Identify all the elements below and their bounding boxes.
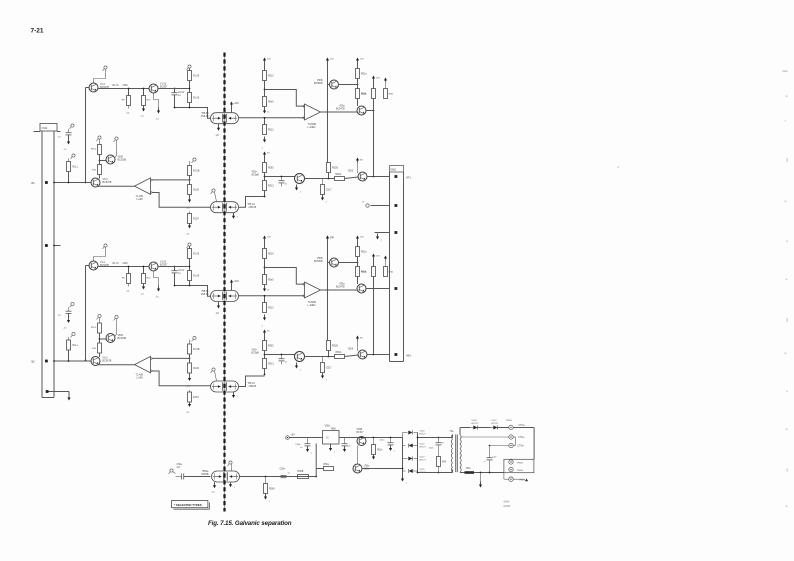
- wire node to V530: [265, 176, 295, 178]
- transistor V211: [106, 155, 115, 164]
- bridge left rail: [402, 438, 404, 476]
- fuse F1501: [465, 471, 475, 474]
- svg-text:VL25: VL25: [420, 469, 426, 471]
- transistor V50B: [357, 437, 366, 446]
- svg-text:BC560B: BC560B: [314, 83, 323, 85]
- svg-text:VL23: VL23: [420, 444, 426, 446]
- svg-text:15V: 15V: [360, 59, 364, 61]
- svg-text:15V: 15V: [330, 59, 334, 61]
- transformer B5 right arrow: [230, 482, 232, 485]
- test point TP1a: [104, 66, 107, 69]
- transistor V621: [357, 284, 366, 293]
- supply rail arrow ch5: [327, 60, 329, 64]
- svg-text:2200: 2200: [123, 85, 129, 87]
- svg-text:IC: IC: [327, 437, 330, 439]
- supply arrow V631: [357, 338, 359, 341]
- wire R to Q node ch4: [99, 333, 101, 343]
- test point TP600: [509, 425, 513, 429]
- right bus node y288: [367, 288, 390, 290]
- transistor V50C: [353, 464, 362, 473]
- svg-text:1N50B: 1N50B: [201, 473, 209, 476]
- resistor R50B horiz: [298, 475, 309, 479]
- wire V50B to V50C: [357, 446, 359, 465]
- transistor V410: [91, 357, 100, 366]
- ground arrow V530: [296, 185, 298, 189]
- svg-text:VL24: VL24: [420, 457, 426, 459]
- transformer B2 top hook: [212, 189, 215, 192]
- resistor R521: [264, 64, 266, 71]
- rail wire ch5: [327, 64, 329, 163]
- svg-text:R51A: R51A: [361, 271, 367, 274]
- svg-text:V50a: V50a: [339, 106, 345, 108]
- wire opamp to V521: [328, 111, 358, 113]
- svg-text:BY127: BY127: [420, 459, 427, 461]
- svg-text:15V: 15V: [376, 78, 380, 80]
- right bus node VP1: [395, 175, 398, 178]
- capacitor C410: [66, 310, 72, 312]
- wire V621 out: [366, 288, 374, 290]
- svg-text:BC547B: BC547B: [336, 109, 345, 111]
- supply arrow rail2: [327, 238, 329, 242]
- capacitor C52: [307, 438, 309, 444]
- svg-text:VEA.: VEA.: [406, 355, 412, 358]
- svg-text:R5C1: R5C1: [91, 327, 97, 329]
- test point TP3a: [104, 244, 107, 247]
- resistor R51x: [373, 438, 375, 445]
- wire opamp top feedback ch2: [152, 179, 190, 181]
- svg-text:R51B: R51B: [332, 346, 338, 348]
- supply arrow ch5r: [264, 154, 266, 158]
- resistor R413: [98, 343, 102, 353]
- svg-text:BC516B: BC516B: [118, 160, 127, 162]
- svg-text:R50A: R50A: [269, 488, 275, 491]
- test point TP4c: [72, 332, 75, 335]
- input RC node ch4: [71, 302, 74, 305]
- svg-text:R50e: R50e: [324, 464, 330, 466]
- svg-text:C50e: C50e: [177, 464, 183, 466]
- capacitor C53: [344, 438, 346, 444]
- resistor R532: [263, 181, 267, 191]
- supply arrow ch3b: [143, 284, 145, 288]
- resistor R533: [327, 163, 331, 173]
- supply tap +15 ch4: [189, 402, 191, 405]
- transformer B4 (ch4): [211, 381, 239, 392]
- scan artifacts: [783, 71, 788, 72]
- svg-text:V50e: V50e: [252, 350, 258, 352]
- transformer B5 left arrow: [214, 482, 216, 486]
- svg-text:R1.05: R1.05: [193, 76, 200, 78]
- left bus tick y245: [54, 245, 61, 247]
- wire Q210 to opamp: [98, 185, 135, 187]
- capacitor C101: [174, 89, 176, 93]
- svg-text:R1D7: R1D7: [193, 219, 200, 221]
- wire Q1 to Q2 ch1: [98, 88, 149, 90]
- right bus node VEA: [395, 353, 398, 356]
- test point TP50: [170, 469, 173, 472]
- svg-text:DB01: DB01: [391, 170, 397, 172]
- svg-text:C50e: C50e: [295, 444, 301, 446]
- wire Q410 to opamp: [98, 364, 135, 366]
- supply tap -15 ch2: [189, 198, 191, 201]
- svg-text:BY127: BY127: [472, 423, 479, 425]
- transistor V520: [330, 80, 339, 89]
- wire Q2 to Rcol ch1: [158, 88, 189, 90]
- capacitor C54: [390, 438, 392, 443]
- transformer B5 top hook: [229, 461, 232, 464]
- svg-text:V50B: V50B: [357, 429, 363, 431]
- wire B5 output: [240, 476, 317, 478]
- capacitor C50: [181, 474, 183, 480]
- svg-text:7-21: 7-21: [31, 28, 44, 35]
- svg-text:Y51B: Y51B: [348, 171, 354, 173]
- transistor V531: [358, 172, 367, 181]
- voltage regulator U50: [323, 431, 340, 445]
- supply tap +15 ch2: [189, 224, 191, 227]
- wire regulator input: [290, 437, 323, 439]
- resistor R525: [356, 89, 360, 99]
- bottom rail joints: [480, 472, 482, 474]
- svg-text:R51e: R51e: [377, 450, 383, 452]
- resistor R214: [189, 161, 191, 166]
- supply arrow ch2in: [68, 140, 70, 143]
- bracket CT group: [515, 437, 517, 446]
- capacitor C631: [281, 355, 283, 359]
- svg-text:R5e5: R5e5: [268, 280, 274, 282]
- svg-text:+9V: +9V: [291, 434, 296, 437]
- transformer B3 -10 arrow: [218, 302, 220, 307]
- svg-text:BC5aB: BC5aB: [252, 175, 260, 177]
- svg-text:BY127: BY127: [420, 446, 427, 448]
- transformer B3 output wire: [239, 295, 305, 297]
- wire riser to regulator row: [315, 444, 317, 477]
- svg-text:R50A: R50A: [336, 173, 342, 176]
- ground symbol TP604: [525, 479, 528, 482]
- svg-text:1501: 1501: [466, 468, 472, 470]
- svg-text:TP606: TP606: [517, 470, 524, 472]
- transformer B3 +10V arrow: [231, 285, 233, 291]
- svg-text:R50A: R50A: [336, 351, 342, 354]
- supply arrow col1b ch5: [264, 108, 266, 112]
- wire opamp to transformer ch2: [152, 193, 211, 208]
- svg-text:2N5.05: 2N5.05: [201, 293, 209, 296]
- left bus node y391: [46, 390, 49, 393]
- resistor R212: [98, 145, 102, 155]
- resistor R632: [263, 359, 267, 369]
- resistor R633: [327, 341, 331, 351]
- resistor R103: [143, 89, 145, 96]
- svg-text:R1.01: R1.01: [113, 263, 120, 265]
- svg-text:V508: V508: [118, 335, 124, 337]
- svg-text:C2.01: C2.01: [178, 270, 185, 272]
- input RC node ch2: [71, 124, 74, 127]
- svg-text:2N5.05: 2N5.05: [201, 115, 209, 118]
- supply arrow ch1a: [128, 106, 130, 109]
- resistor R535 horiz: [335, 177, 345, 181]
- left bus tick y131: [34, 131, 41, 133]
- test point TP2e: [115, 137, 118, 140]
- supply rail arrow ch6: [327, 238, 329, 242]
- diode VL25: [409, 469, 413, 473]
- svg-text:R1D7: R1D7: [193, 397, 200, 399]
- resistor R412: [98, 323, 102, 333]
- resistor R215: [188, 185, 192, 195]
- svg-text:BC517: BC517: [357, 432, 365, 434]
- resistor R305: [188, 271, 192, 281]
- svg-text:15V: 15V: [267, 59, 271, 61]
- diode VL22: [408, 431, 412, 435]
- bridge right rail: [417, 433, 419, 473]
- svg-text:SA6A: SA6A: [504, 501, 510, 504]
- svg-text:V50a: V50a: [339, 284, 345, 286]
- left bus node B2: [54, 360, 69, 362]
- svg-text:TP604: TP604: [519, 480, 526, 482]
- svg-text:* SELECTED TYPES: * SELECTED TYPES: [174, 503, 202, 507]
- transistor V210: [91, 178, 100, 187]
- rail RB3 to RB4: [373, 277, 375, 355]
- diode VL24: [408, 457, 412, 461]
- svg-text:VL27: VL27: [492, 420, 498, 422]
- resistor R416: [189, 390, 191, 392]
- wire Q2 to Rcol ch3: [158, 266, 189, 268]
- svg-text:V50e: V50e: [325, 425, 331, 428]
- svg-text:R5C1: R5C1: [268, 186, 275, 188]
- svg-text:6A052: 6A052: [504, 505, 511, 508]
- resistor R105: [188, 93, 192, 103]
- supply arrow V531: [357, 160, 359, 163]
- svg-text:C517: C517: [326, 190, 332, 192]
- svg-text:R50B: R50B: [298, 471, 304, 473]
- resistor R526: [373, 82, 375, 89]
- svg-text:R1.0B: R1.0B: [193, 349, 200, 351]
- supply arrow ch4in: [68, 318, 70, 321]
- test point TP605: [509, 460, 513, 464]
- transformer B1 +10V arrow: [231, 107, 233, 113]
- transformer B2 (ch2): [211, 202, 239, 213]
- op-amp U5: [305, 104, 321, 120]
- svg-text:CT01~: CT01~: [518, 437, 526, 439]
- left bus connector box: [40, 124, 57, 132]
- svg-text:R5C1: R5C1: [91, 149, 97, 151]
- wire opamp out ch5: [321, 111, 328, 113]
- svg-text:R1LB: R1LB: [193, 368, 199, 370]
- transformer B1 (ch1): [211, 113, 239, 124]
- capacitor C301: [174, 267, 176, 271]
- wire opamp out ch6: [321, 289, 328, 291]
- svg-text:V50e: V50e: [252, 172, 258, 174]
- svg-text:R512: R512: [268, 130, 274, 132]
- wire opamp to V621: [328, 289, 358, 291]
- resistor R631: [264, 336, 266, 341]
- wire V531 to bus: [367, 176, 390, 178]
- svg-text:L A08: L A08: [137, 377, 144, 380]
- resistor R216: [189, 212, 191, 214]
- svg-text:V50B: V50B: [317, 258, 323, 260]
- test point TP2f: [193, 158, 196, 161]
- svg-text:R1.01: R1.01: [113, 85, 120, 87]
- wire V630 to R51B node: [305, 356, 335, 358]
- left bus wire pair: [41, 131, 43, 398]
- svg-text:CS01: CS01: [42, 127, 49, 130]
- svg-text:R510: R510: [268, 76, 274, 78]
- resistor R523: [264, 118, 266, 125]
- wire bus to Q210: [69, 182, 92, 184]
- svg-text:L A08: L A08: [137, 198, 144, 201]
- svg-text:R5A: R5A: [389, 93, 394, 96]
- rail RB1 to RB2: [373, 99, 375, 177]
- wire Q1 base drop ch3: [86, 265, 90, 267]
- svg-text:2200: 2200: [123, 263, 129, 265]
- svg-text:BY127: BY127: [492, 423, 499, 425]
- svg-text:R505: R505: [268, 168, 274, 170]
- resistor R527: [385, 80, 387, 82]
- ground arrow C52: [307, 446, 309, 450]
- svg-text:C51e: C51e: [379, 440, 385, 442]
- transformer T01 left leads: [452, 435, 454, 438]
- capacitor C55: [438, 438, 440, 443]
- wire box left: [503, 473, 505, 480]
- ground arrow bridge: [402, 476, 404, 480]
- resistor R304: [189, 246, 191, 248]
- electrolytic C56: [489, 446, 491, 458]
- svg-text:L-A0E0: L-A0E0: [308, 304, 317, 307]
- svg-text:+10V: +10V: [234, 281, 240, 283]
- transformer B1 -10 arrow: [218, 124, 220, 129]
- rail wire ch6: [327, 242, 329, 341]
- svg-text:15V: 15V: [360, 237, 364, 239]
- svg-text:CT0e~: CT0e~: [518, 446, 526, 448]
- svg-text:R1.0B: R1.0B: [193, 171, 200, 173]
- supply arrow col1c ch5: [264, 137, 266, 141]
- left bus node B1: [54, 182, 69, 184]
- svg-text:Y51B: Y51B: [348, 349, 354, 351]
- svg-text:R510: R510: [268, 254, 274, 256]
- transistor V411: [106, 334, 115, 343]
- supply arrow col1 ch6: [264, 238, 266, 242]
- transistor V630: [295, 352, 305, 362]
- test point TP606: [509, 467, 513, 471]
- svg-text:15V: 15V: [376, 256, 380, 258]
- supply arrow ch3c: [158, 286, 160, 290]
- svg-text:B2.: B2.: [32, 360, 36, 364]
- transformer B4 top hook: [212, 368, 215, 371]
- supply arrow ch1c: [158, 108, 160, 112]
- capacitor C51: [281, 475, 287, 477]
- wire Q1 to Q2 ch3: [98, 266, 149, 268]
- svg-text:TP605: TP605: [517, 463, 524, 465]
- transformer B2 output wire: [239, 197, 265, 208]
- svg-text:R51a: R51a: [361, 252, 367, 254]
- supply arrow ch6r: [264, 332, 266, 336]
- svg-text:R51A: R51A: [361, 93, 367, 96]
- right bus wire pair: [389, 172, 391, 362]
- test point TP2c: [72, 154, 75, 157]
- op-amp IC4: [135, 356, 151, 372]
- svg-text:BC547B: BC547B: [103, 181, 112, 184]
- supply arrow col2 ch5: [357, 60, 359, 64]
- svg-text:R1LB: R1LB: [193, 190, 199, 192]
- transformer B4 output wire: [239, 376, 265, 387]
- resistor R50A: [265, 477, 267, 484]
- svg-text:BC547B: BC547B: [103, 360, 112, 363]
- svg-text:7806: 7806: [331, 428, 337, 430]
- resistor R635 horiz: [335, 355, 345, 359]
- svg-text:R51B: R51B: [332, 168, 338, 170]
- transformer B3 (ch3): [211, 291, 239, 302]
- rail RB3 col: [327, 242, 329, 341]
- diode VL26: [473, 426, 477, 430]
- svg-text:2N5.05: 2N5.05: [249, 206, 257, 209]
- transformer B5 (ch5): [212, 471, 240, 482]
- svg-text:R512: R512: [268, 308, 274, 310]
- resistor R43: [437, 457, 441, 467]
- test point box: [504, 459, 534, 472]
- right bus node y232: [375, 232, 390, 234]
- resistor R634: [322, 357, 324, 363]
- capacitor C210: [66, 132, 72, 134]
- svg-text:R43: R43: [442, 462, 447, 464]
- transistor V631: [358, 350, 367, 359]
- svg-text:R5e5: R5e5: [268, 102, 274, 104]
- wire output to transformer ch3: [175, 286, 211, 297]
- test point TP604: [509, 477, 513, 481]
- svg-text:BC5aB: BC5aB: [252, 353, 260, 355]
- transformer T01 right top lead: [459, 428, 461, 435]
- test point TP3b: [188, 243, 191, 246]
- resistor R625: [356, 267, 360, 277]
- transistor V530: [295, 174, 305, 184]
- diode VL27: [493, 426, 497, 430]
- wire node to V630: [265, 354, 295, 356]
- resistor R302: [128, 267, 130, 274]
- resistor R627: [385, 258, 387, 260]
- transistor V101: [89, 83, 98, 92]
- svg-text:BC560B: BC560B: [314, 261, 323, 263]
- resistor R522: [263, 97, 267, 107]
- svg-text:VP1.: VP1.: [406, 177, 412, 180]
- svg-text:CT01~: CT01~: [519, 425, 527, 427]
- resistor R411: [68, 337, 70, 340]
- ground stub C56: [480, 473, 482, 482]
- test point TP4d: [98, 314, 101, 317]
- svg-text:V508: V508: [118, 157, 124, 159]
- svg-text:15V: 15V: [267, 237, 271, 239]
- svg-text:VL26: VL26: [472, 420, 478, 422]
- svg-text:B1.: B1.: [32, 181, 36, 185]
- wire V620 to col2: [339, 262, 358, 264]
- diode VL23: [409, 444, 413, 448]
- wire output to transformer ch1: [175, 108, 211, 119]
- test point TP4f: [193, 336, 196, 339]
- ground stub y232: [377, 234, 379, 238]
- supply symbol y205: [366, 204, 369, 207]
- svg-text:V50a: V50a: [364, 466, 370, 468]
- svg-text:V50B: V50B: [317, 80, 323, 82]
- resistor R102: [128, 89, 130, 96]
- svg-text:C517: C517: [326, 368, 332, 370]
- test point TP4e: [115, 315, 118, 318]
- transistor V301: [89, 261, 98, 270]
- svg-text:VL22: VL22: [420, 431, 426, 433]
- svg-text:R1.05: R1.05: [193, 254, 200, 256]
- supply arrow col1c ch6: [264, 315, 266, 319]
- supply input symbol: [286, 436, 290, 440]
- capacitor C531: [281, 177, 283, 181]
- resistor R622: [263, 275, 267, 285]
- op-amp U6: [305, 282, 321, 298]
- resistor R415: [188, 363, 192, 373]
- wire V631 to bus: [367, 354, 390, 356]
- ground arrow V630: [296, 363, 298, 367]
